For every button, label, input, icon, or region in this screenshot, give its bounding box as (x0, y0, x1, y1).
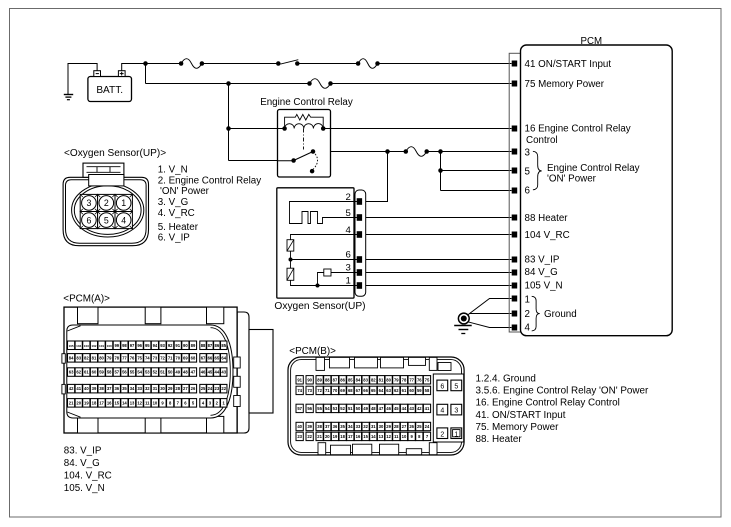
svg-text:<PCM(B)>: <PCM(B)> (289, 346, 336, 357)
svg-text:87: 87 (333, 377, 338, 382)
svg-text:86: 86 (340, 377, 345, 382)
svg-text:53: 53 (333, 406, 338, 411)
svg-text:34: 34 (348, 424, 353, 429)
svg-text:90: 90 (183, 343, 188, 348)
svg-text:85: 85 (348, 377, 353, 382)
svg-text:3.5.6. Engine Control Relay 'O: 3.5.6. Engine Control Relay 'ON' Power (476, 386, 650, 397)
svg-text:70: 70 (175, 355, 180, 360)
svg-text:68: 68 (348, 388, 353, 393)
svg-text:103: 103 (84, 344, 89, 348)
svg-text:Oxygen Sensor(UP): Oxygen Sensor(UP) (274, 301, 365, 312)
svg-text:84 V_G: 84 V_G (525, 267, 558, 278)
svg-text:55: 55 (130, 370, 135, 375)
svg-text:56: 56 (307, 406, 312, 411)
svg-text:88: 88 (325, 377, 330, 382)
svg-text:12: 12 (137, 400, 142, 405)
svg-text:37: 37 (107, 386, 112, 391)
svg-text:23: 23 (297, 434, 302, 439)
svg-text:22: 22 (307, 434, 312, 439)
svg-text:29: 29 (168, 386, 173, 391)
svg-text:55: 55 (317, 406, 322, 411)
svg-text:15: 15 (114, 400, 119, 405)
svg-text:24: 24 (208, 386, 213, 391)
svg-text:102: 102 (91, 344, 96, 348)
svg-text:1: 1 (454, 431, 458, 438)
svg-text:3: 3 (454, 408, 458, 415)
svg-text:81: 81 (92, 355, 97, 360)
svg-text:49: 49 (363, 406, 368, 411)
svg-text:45: 45 (208, 370, 213, 375)
svg-text:20: 20 (325, 434, 330, 439)
svg-text:66: 66 (363, 388, 368, 393)
svg-text:25: 25 (417, 424, 422, 429)
svg-text:100: 100 (107, 344, 112, 348)
svg-text:26: 26 (409, 424, 414, 429)
svg-text:18: 18 (340, 434, 345, 439)
svg-text:97: 97 (130, 343, 135, 348)
svg-text:46: 46 (386, 406, 391, 411)
svg-text:4: 4 (440, 408, 444, 415)
svg-text:65: 65 (214, 355, 219, 360)
svg-text:35: 35 (122, 386, 127, 391)
svg-text:59: 59 (99, 370, 104, 375)
svg-text:1. V_N: 1. V_N (158, 164, 188, 175)
svg-text:84: 84 (69, 355, 74, 360)
svg-text:86: 86 (214, 343, 219, 348)
svg-text:104 V_RC: 104 V_RC (525, 230, 570, 241)
svg-text:77: 77 (409, 377, 414, 382)
svg-text:43: 43 (409, 406, 414, 411)
svg-text:28: 28 (394, 424, 399, 429)
svg-text:81: 81 (379, 377, 384, 382)
svg-text:6: 6 (86, 215, 91, 225)
svg-text:2: 2 (345, 192, 350, 203)
svg-text:29: 29 (386, 424, 391, 429)
svg-text:83: 83 (363, 377, 368, 382)
svg-text:Engine Control Relay: Engine Control Relay (547, 163, 640, 174)
svg-text:82: 82 (84, 355, 89, 360)
svg-text:10: 10 (402, 434, 407, 439)
svg-text:62: 62 (76, 370, 81, 375)
svg-text:57: 57 (297, 406, 302, 411)
svg-text:84: 84 (356, 377, 361, 382)
svg-text:30: 30 (379, 424, 384, 429)
svg-text:6: 6 (525, 186, 531, 197)
svg-text:14: 14 (371, 434, 376, 439)
svg-text:2. Engine Control Relay: 2. Engine Control Relay (158, 175, 262, 186)
svg-text:47: 47 (379, 406, 384, 411)
svg-text:32: 32 (363, 424, 368, 429)
svg-text:4: 4 (345, 225, 351, 236)
svg-text:91: 91 (297, 377, 302, 382)
svg-text:'ON' Power: 'ON' Power (160, 186, 210, 197)
svg-text:79: 79 (107, 355, 112, 360)
svg-text:95: 95 (145, 343, 150, 348)
svg-text:68: 68 (191, 355, 196, 360)
svg-text:Engine Control Relay: Engine Control Relay (260, 97, 353, 108)
svg-text:104: 104 (76, 344, 81, 348)
svg-text:46: 46 (201, 370, 206, 375)
svg-text:4: 4 (121, 215, 126, 225)
svg-text:80: 80 (99, 355, 104, 360)
svg-text:16: 16 (107, 400, 112, 405)
svg-text:20: 20 (76, 400, 81, 405)
svg-text:3. V_G: 3. V_G (158, 197, 189, 208)
svg-text:71: 71 (168, 355, 173, 360)
svg-text:4: 4 (525, 322, 531, 333)
svg-text:101: 101 (99, 344, 104, 348)
svg-text:38: 38 (99, 386, 104, 391)
svg-text:87: 87 (208, 343, 213, 348)
svg-text:91: 91 (175, 343, 180, 348)
svg-text:98: 98 (122, 343, 127, 348)
svg-text:3: 3 (86, 198, 91, 208)
svg-text:<Oxygen Sensor(UP)>: <Oxygen Sensor(UP)> (64, 148, 166, 159)
svg-text:22: 22 (221, 386, 226, 391)
svg-text:11: 11 (394, 434, 399, 439)
svg-text:14: 14 (122, 400, 127, 405)
svg-text:69: 69 (183, 355, 188, 360)
svg-text:80: 80 (386, 377, 391, 382)
svg-text:76: 76 (417, 377, 422, 382)
svg-text:43: 43 (221, 370, 226, 375)
svg-text:85: 85 (221, 343, 226, 348)
svg-text:32: 32 (145, 386, 150, 391)
svg-text:19: 19 (333, 434, 338, 439)
svg-text:60: 60 (409, 388, 414, 393)
svg-text:76: 76 (130, 355, 135, 360)
svg-text:5: 5 (345, 208, 350, 219)
svg-text:99: 99 (114, 343, 119, 348)
svg-text:17: 17 (348, 434, 353, 439)
svg-text:105. V_N: 105. V_N (64, 483, 105, 494)
svg-text:44: 44 (402, 406, 407, 411)
svg-text:73: 73 (307, 388, 312, 393)
svg-text:34: 34 (130, 386, 135, 391)
svg-text:6: 6 (345, 250, 350, 261)
svg-text:69: 69 (340, 388, 345, 393)
svg-text:Ground: Ground (544, 309, 577, 320)
svg-text:48: 48 (371, 406, 376, 411)
svg-text:75: 75 (425, 377, 430, 382)
svg-text:105: 105 (68, 344, 73, 348)
svg-text:52: 52 (153, 370, 158, 375)
svg-text:88: 88 (201, 343, 206, 348)
svg-text:67: 67 (356, 388, 361, 393)
svg-text:5: 5 (104, 215, 109, 225)
svg-text:2: 2 (525, 309, 530, 320)
svg-text:52: 52 (340, 406, 345, 411)
svg-text:73: 73 (153, 355, 158, 360)
svg-text:13: 13 (130, 400, 135, 405)
svg-text:40: 40 (84, 386, 89, 391)
svg-text:88. Heater: 88. Heater (476, 434, 523, 445)
svg-text:42: 42 (417, 406, 422, 411)
svg-text:60: 60 (92, 370, 97, 375)
svg-text:16 Engine Control Relay: 16 Engine Control Relay (525, 124, 631, 135)
svg-text:94: 94 (153, 343, 158, 348)
svg-text:1: 1 (525, 294, 530, 305)
svg-text:1: 1 (345, 276, 350, 287)
svg-text:47: 47 (191, 370, 196, 375)
svg-text:2: 2 (104, 198, 109, 208)
svg-text:27: 27 (402, 424, 407, 429)
svg-text:3: 3 (345, 262, 350, 273)
svg-text:4. V_RC: 4. V_RC (158, 208, 195, 219)
svg-text:3: 3 (525, 147, 531, 158)
svg-text:72: 72 (160, 355, 165, 360)
svg-text:58: 58 (107, 370, 112, 375)
svg-text:89: 89 (191, 343, 196, 348)
svg-text:11: 11 (145, 400, 150, 405)
svg-text:61: 61 (402, 388, 407, 393)
svg-text:72: 72 (317, 388, 322, 393)
svg-text:44: 44 (214, 370, 219, 375)
svg-text:88 Heater: 88 Heater (525, 213, 569, 224)
svg-text:56: 56 (122, 370, 127, 375)
svg-text:78: 78 (402, 377, 407, 382)
svg-text:48: 48 (183, 370, 188, 375)
svg-text:83. V_IP: 83. V_IP (64, 446, 102, 457)
svg-text:104. V_RC: 104. V_RC (64, 471, 112, 482)
svg-text:82: 82 (371, 377, 376, 382)
svg-text:61: 61 (84, 370, 89, 375)
svg-text:70: 70 (333, 388, 338, 393)
svg-text:67: 67 (201, 355, 206, 360)
svg-text:37: 37 (325, 424, 330, 429)
svg-text:79: 79 (394, 377, 399, 382)
svg-text:64: 64 (379, 388, 384, 393)
svg-text:16: 16 (356, 434, 361, 439)
svg-text:Control: Control (526, 135, 558, 146)
svg-text:83 V_IP: 83 V_IP (525, 255, 560, 266)
svg-text:24: 24 (425, 424, 430, 429)
svg-text:21: 21 (69, 400, 74, 405)
svg-text:17: 17 (99, 400, 104, 405)
svg-text:23: 23 (214, 386, 219, 391)
svg-text:31: 31 (153, 386, 158, 391)
svg-text:51: 51 (348, 406, 353, 411)
svg-text:51: 51 (160, 370, 165, 375)
svg-text:40: 40 (297, 424, 302, 429)
svg-text:66: 66 (208, 355, 213, 360)
svg-text:90: 90 (307, 377, 312, 382)
svg-text:41. ON/START Input: 41. ON/START Input (476, 410, 566, 421)
svg-text:41: 41 (425, 406, 430, 411)
svg-text:89: 89 (317, 377, 322, 382)
svg-text:75: 75 (137, 355, 142, 360)
svg-text:25: 25 (201, 386, 206, 391)
svg-text:50: 50 (168, 370, 173, 375)
svg-text:54: 54 (325, 406, 330, 411)
svg-text:77: 77 (122, 355, 127, 360)
svg-text:63: 63 (386, 388, 391, 393)
svg-text:27: 27 (183, 386, 188, 391)
svg-text:5: 5 (525, 167, 531, 178)
svg-text:6. V_IP: 6. V_IP (158, 233, 191, 244)
svg-text:31: 31 (371, 424, 376, 429)
svg-text:2: 2 (440, 431, 444, 438)
svg-text:39: 39 (92, 386, 97, 391)
svg-text:75. Memory Power: 75. Memory Power (476, 422, 560, 433)
svg-text:<PCM(A)>: <PCM(A)> (63, 293, 110, 304)
svg-text:96: 96 (137, 343, 142, 348)
svg-text:78: 78 (114, 355, 119, 360)
svg-text:84. V_G: 84. V_G (64, 458, 100, 469)
svg-text:92: 92 (168, 343, 173, 348)
svg-text:53: 53 (145, 370, 150, 375)
svg-text:33: 33 (356, 424, 361, 429)
svg-text:12: 12 (386, 434, 391, 439)
svg-text:45: 45 (394, 406, 399, 411)
svg-text:41 ON/START Input: 41 ON/START Input (525, 59, 612, 70)
svg-text:36: 36 (333, 424, 338, 429)
svg-text:54: 54 (137, 370, 142, 375)
svg-text:105 V_N: 105 V_N (525, 281, 563, 292)
svg-text:39: 39 (307, 424, 312, 429)
svg-text:BATT.: BATT. (96, 85, 123, 96)
svg-text:63: 63 (69, 370, 74, 375)
svg-text:16. Engine Control Relay Contr: 16. Engine Control Relay Control (476, 397, 620, 408)
svg-text:6: 6 (440, 384, 444, 391)
svg-text:41: 41 (76, 386, 81, 391)
svg-text:59: 59 (417, 388, 422, 393)
svg-text:13: 13 (379, 434, 384, 439)
svg-text:49: 49 (175, 370, 180, 375)
svg-text:30: 30 (160, 386, 165, 391)
svg-text:58: 58 (425, 388, 430, 393)
svg-text:18: 18 (92, 400, 97, 405)
svg-text:65: 65 (371, 388, 376, 393)
svg-text:19: 19 (84, 400, 89, 405)
svg-text:57: 57 (114, 370, 119, 375)
svg-text:64: 64 (221, 355, 226, 360)
svg-text:75 Memory Power: 75 Memory Power (525, 79, 605, 90)
svg-text:74: 74 (145, 355, 150, 360)
svg-text:1.2.4. Ground: 1.2.4. Ground (476, 374, 536, 385)
svg-text:21: 21 (317, 434, 322, 439)
svg-text:26: 26 (191, 386, 196, 391)
svg-text:42: 42 (69, 386, 74, 391)
svg-text:50: 50 (356, 406, 361, 411)
svg-text:36: 36 (114, 386, 119, 391)
svg-text:71: 71 (325, 388, 330, 393)
svg-text:1: 1 (121, 198, 126, 208)
svg-text:74: 74 (297, 388, 302, 393)
svg-text:62: 62 (394, 388, 399, 393)
svg-text:38: 38 (317, 424, 322, 429)
svg-text:33: 33 (137, 386, 142, 391)
svg-text:93: 93 (160, 343, 165, 348)
svg-text:5. Heater: 5. Heater (158, 222, 199, 233)
svg-text:'ON' Power: 'ON' Power (547, 174, 597, 185)
svg-text:10: 10 (153, 400, 158, 405)
svg-text:28: 28 (175, 386, 180, 391)
svg-text:5: 5 (454, 384, 458, 391)
svg-text:15: 15 (363, 434, 368, 439)
svg-text:35: 35 (340, 424, 345, 429)
svg-text:83: 83 (76, 355, 81, 360)
